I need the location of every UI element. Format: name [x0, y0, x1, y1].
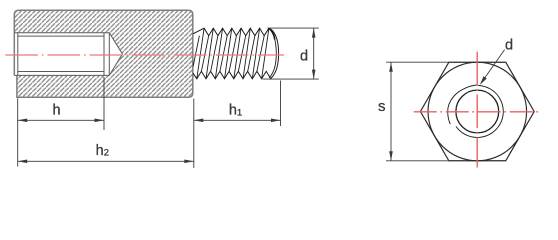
svg-text:h1: h1 [229, 103, 242, 119]
thread major arc [456, 86, 503, 138]
dim h1 line [194, 119, 281, 121]
chamfer circle [428, 62, 527, 161]
dim h line [18, 119, 104, 121]
svg-text:d: d [300, 49, 308, 65]
leader line d (hex) [482, 50, 504, 82]
bore thread major lines [14, 33, 109, 76]
dim h2 arrows [18, 160, 28, 164]
dim d line [313, 28, 315, 79]
thread runout spiral [448, 85, 479, 124]
dim h2 line [18, 160, 194, 162]
bore minor lines [18, 36, 104, 71]
dim s line [390, 62, 392, 161]
leader arrow [480, 76, 487, 85]
svg-text:h2: h2 [96, 143, 109, 159]
thread helix lines root-to-root [201, 36, 264, 72]
dim h arrows [18, 119, 28, 123]
standoff body (section, hatched) [14, 10, 193, 97]
stud end chamfer inner curve [269, 28, 276, 78]
dim h extension lines [18, 77, 104, 130]
thread helix lines crest-to-crest [197, 28, 269, 79]
svg-text:h: h [52, 103, 60, 119]
bore circle [456, 90, 499, 133]
stud end face arc [269, 28, 279, 78]
svg-text:s: s [378, 98, 386, 115]
dim s arrows [389, 62, 393, 71]
threaded stud outline bottom [193, 71, 271, 79]
bore entrance chamfer line [17, 33, 19, 76]
red centerline hex vertical [476, 52, 478, 168]
dim d extension lines [263, 28, 319, 79]
drill point cone [109, 33, 122, 76]
stud end dark wedge [269, 29, 275, 40]
dim s extension lines [386, 62, 449, 161]
dim h2 extension line (left shared with h) [17, 126, 19, 167]
red centerline hex horizontal [414, 111, 541, 113]
bore cutout (white) [15, 33, 123, 76]
body outline [14, 10, 193, 97]
hexagon [420, 62, 534, 161]
svg-text:d: d [505, 38, 513, 54]
threaded stud outline top [193, 28, 269, 36]
dim h1 extension lines [194, 81, 281, 169]
thread runout line at face [193, 36, 199, 67]
thread end line [103, 33, 105, 76]
red centerline side view [5, 54, 284, 56]
drill cone base line [108, 33, 110, 76]
dim h1 arrows [194, 119, 204, 123]
dim d arrows [312, 28, 316, 37]
